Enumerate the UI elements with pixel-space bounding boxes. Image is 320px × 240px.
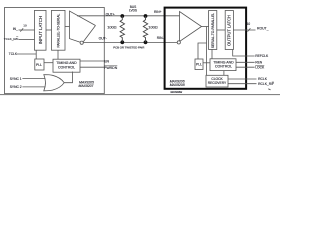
- svg-text:100Ω: 100Ω: [148, 24, 157, 29]
- svg-text:LVDS: LVDS: [129, 8, 137, 12]
- svg-text:SERIAL-TO-PARALLEL: SERIAL-TO-PARALLEL: [211, 13, 215, 49]
- svg-text:100Ω: 100Ω: [107, 24, 116, 29]
- svg-text:RCLK_R/F: RCLK_R/F: [258, 82, 274, 86]
- svg-text:TCLK: TCLK: [9, 52, 18, 56]
- svg-text:MAX9207: MAX9207: [79, 84, 94, 88]
- svg-text:PLL: PLL: [36, 63, 42, 67]
- svg-text:PLL: PLL: [196, 63, 202, 67]
- svg-text:RECOVERY: RECOVERY: [208, 81, 227, 85]
- svg-text:RCLK: RCLK: [258, 77, 268, 81]
- svg-text:INPUT LATCH: INPUT LATCH: [38, 16, 43, 44]
- svg-text:10: 10: [23, 23, 27, 27]
- svg-text:TCLK_R/F: TCLK_R/F: [4, 37, 19, 41]
- svg-text:REN: REN: [255, 61, 263, 65]
- svg-text:EN: EN: [104, 59, 109, 63]
- svg-text:OUT+: OUT+: [106, 12, 115, 16]
- svg-text:REFCLK: REFCLK: [255, 54, 269, 58]
- svg-text:LOCK: LOCK: [255, 65, 265, 69]
- svg-text:PWRDN: PWRDN: [104, 66, 118, 70]
- svg-text:MAX9208: MAX9208: [170, 83, 185, 87]
- svg-text:PARALLEL-TO-SERIAL: PARALLEL-TO-SERIAL: [57, 14, 61, 48]
- svg-text:CONTROL: CONTROL: [58, 66, 75, 70]
- svg-text:OUTPUT LATCH: OUTPUT LATCH: [227, 15, 232, 46]
- svg-text:IN_: IN_: [13, 27, 18, 31]
- svg-text:CONTROL: CONTROL: [215, 65, 232, 69]
- svg-text:RIN+: RIN+: [154, 10, 162, 14]
- svg-text:RIN-: RIN-: [157, 36, 164, 40]
- svg-text:SYNC 2: SYNC 2: [10, 85, 22, 89]
- svg-text:MAX9206E: MAX9206E: [171, 91, 183, 94]
- svg-text:SYNC 1: SYNC 1: [10, 77, 22, 81]
- svg-text:PCB OR TWISTED PAIR: PCB OR TWISTED PAIR: [113, 46, 144, 50]
- svg-text:10: 10: [247, 22, 251, 26]
- svg-text:OUT-: OUT-: [99, 36, 107, 40]
- svg-text:ROUT_: ROUT_: [257, 27, 269, 31]
